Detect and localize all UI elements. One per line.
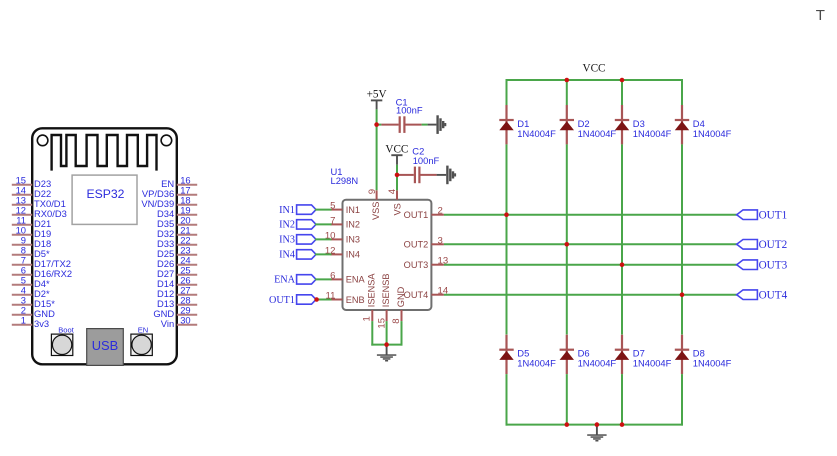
- svg-text:ISENSB: ISENSB: [381, 273, 391, 307]
- node IN2 net flag (left): [279, 220, 316, 231]
- U1 pin 15 (ISENSB) lead+number+name: [377, 273, 391, 328]
- svg-text:ISENSA: ISENSA: [367, 273, 377, 308]
- svg-text:1N4004F: 1N4004F: [517, 128, 556, 139]
- ground symbol bottom rail: [587, 425, 606, 442]
- wire OUT4 to D8: [681, 295, 683, 335]
- svg-text:IN4: IN4: [279, 250, 295, 261]
- ESP32 pin 16 (EN) right stub+number+name: [161, 174, 197, 188]
- junction D4/D8 on OUT4: [680, 292, 685, 297]
- svg-text:Boot: Boot: [58, 325, 75, 334]
- svg-text:IN1: IN1: [346, 205, 360, 215]
- svg-text:1: 1: [21, 314, 26, 325]
- svg-text:ENB: ENB: [346, 295, 365, 305]
- svg-text:1N4004F: 1N4004F: [633, 128, 672, 139]
- wire D8 to ground rail: [681, 374, 683, 426]
- wire IN2 flag to U1: [315, 223, 332, 225]
- wire D1 to OUT1: [506, 144, 508, 214]
- wire ISENSB pin15 down: [386, 321, 388, 346]
- node ENA net flag (left): [274, 275, 316, 286]
- svg-text:OUT1: OUT1: [404, 210, 429, 220]
- svg-text:1N4004F: 1N4004F: [578, 358, 617, 369]
- ESP32 pin 1 (3v3) left stub+number+name: [12, 314, 49, 328]
- svg-text:VCC: VCC: [385, 143, 408, 155]
- wire +5V to VSS pin9: [376, 109, 378, 190]
- svg-text:IN3: IN3: [279, 235, 295, 246]
- ESP32 pin 11 (D21) left stub+number+name: [12, 214, 51, 228]
- wire OUT1 flag to U1: [315, 299, 332, 301]
- ESP32 pin 9 (D18) left stub+number+name: [12, 234, 51, 248]
- svg-text:IN2: IN2: [346, 220, 360, 230]
- svg-text:1N4004F: 1N4004F: [633, 358, 672, 369]
- wire GND pin8 down: [401, 321, 403, 346]
- wire IN1 flag to U1: [315, 209, 332, 211]
- ESP32 pin 10 (D19) left stub+number+name: [12, 224, 51, 238]
- ESP32 pin 22 (D33) right stub+number+name: [157, 234, 197, 248]
- wire OUT4 from U1 to flag: [444, 294, 738, 296]
- diode D3 1N4004F: [615, 105, 672, 144]
- svg-text:8: 8: [391, 318, 402, 323]
- wire VCC rail to D4: [681, 79, 683, 105]
- ground symbol under U1: [377, 345, 396, 362]
- wire OUT2 from U1 to flag: [444, 243, 738, 245]
- ESP32 pin 6 (D16/RX2) left stub+number+name: [12, 264, 72, 278]
- svg-text:IN3: IN3: [346, 235, 360, 245]
- ESP32 pin 3 (D15*) left stub+number+name: [12, 294, 55, 308]
- svg-text:T: T: [816, 7, 825, 24]
- svg-text:3v3: 3v3: [34, 318, 49, 329]
- U1 pin 10 (IN3) lead+number+name: [325, 230, 360, 244]
- ESP32 antenna meander: [52, 135, 157, 171]
- ESP32 USB connector: [87, 329, 124, 366]
- diode D7 1N4004F: [615, 335, 672, 374]
- wire VCC rail to D1: [506, 79, 508, 105]
- ESP32 pin 15 (D23) left stub+number+name: [12, 174, 51, 188]
- wire VCC top rail: [506, 79, 684, 81]
- wire D3 to OUT3: [621, 144, 623, 264]
- ESP32 pin 29 (GND) right stub+number+name: [153, 304, 197, 318]
- ESP32 pin 25 (D27) right stub+number+name: [157, 264, 197, 278]
- svg-text:ENA: ENA: [274, 275, 296, 286]
- ESP32 mounting hole left: [37, 135, 48, 146]
- svg-text:OUT4: OUT4: [404, 290, 429, 300]
- wire OUT2 to D6: [566, 244, 568, 334]
- wire IN3 flag to U1: [315, 238, 332, 240]
- ESP32 pin 14 (D22) left stub+number+name: [12, 184, 51, 198]
- svg-text:VCC: VCC: [582, 62, 605, 74]
- U1 pin 3 (OUT2) lead+number+name: [404, 235, 444, 249]
- power VCC symbol (at C2): [385, 143, 408, 164]
- node OUT1 net flag (left): [269, 295, 316, 306]
- ESP32 chip box: [72, 175, 137, 224]
- svg-text:GND: GND: [396, 286, 406, 307]
- node OUT2 net flag (right): [737, 239, 787, 251]
- diode D8 1N4004F: [675, 335, 732, 374]
- node IN1 net flag (left): [279, 205, 316, 216]
- node OUT1 net flag (right): [737, 209, 787, 221]
- ESP32 pin 26 (D14) right stub+number+name: [157, 274, 197, 288]
- ESP32 pin 21 (D32) right stub+number+name: [157, 224, 197, 238]
- junction D1/D5 on OUT1: [504, 212, 509, 217]
- svg-text:OUT4: OUT4: [759, 289, 788, 301]
- U1 pin 8 (GND) lead+number+name: [391, 286, 406, 323]
- wire D4 to OUT4: [681, 144, 683, 294]
- svg-text:30: 30: [180, 314, 190, 325]
- ESP32 pin 12 (RX0/D3) left stub+number+name: [12, 204, 67, 218]
- wire VCC rail to D2: [566, 79, 568, 105]
- ESP32 pin 7 (D17/TX2) left stub+number+name: [12, 254, 71, 268]
- ESP32 pin 20 (D35) right stub+number+name: [157, 214, 197, 228]
- U1 pin 6 (ENA) lead+number+name: [330, 270, 365, 284]
- svg-text:ENA: ENA: [346, 275, 366, 285]
- ESP32 pin 17 (VP/D36) right stub+number+name: [142, 184, 197, 198]
- svg-text:VS: VS: [392, 203, 402, 215]
- svg-text:IN2: IN2: [279, 220, 295, 231]
- U1 pin 11 (ENB) lead+number+name: [326, 291, 365, 305]
- svg-text:OUT3: OUT3: [759, 259, 788, 271]
- svg-text:L298N: L298N: [331, 175, 359, 186]
- wire OUT3 to D7: [621, 265, 623, 335]
- svg-text:Vin: Vin: [161, 318, 174, 329]
- diode D6 1N4004F: [560, 335, 617, 374]
- svg-text:1N4004F: 1N4004F: [693, 128, 732, 139]
- wire D7 to ground rail: [621, 374, 623, 426]
- svg-text:100nF: 100nF: [413, 155, 440, 166]
- wire bottom ground rail: [506, 424, 684, 426]
- wire ENA flag to U1: [315, 278, 332, 280]
- svg-text:OUT3: OUT3: [404, 260, 429, 270]
- U1 pin 1 (ISENSA) lead+number+name: [361, 273, 376, 322]
- svg-text:1N4004F: 1N4004F: [517, 358, 556, 369]
- svg-text:VSS: VSS: [371, 202, 381, 220]
- svg-text:1N4004F: 1N4004F: [578, 128, 617, 139]
- wire VCC to VS pin4: [396, 165, 398, 191]
- wire OUT1 to D5: [506, 215, 508, 335]
- svg-text:OUT2: OUT2: [759, 239, 788, 251]
- svg-text:OUT1: OUT1: [269, 295, 295, 306]
- diode D1 1N4004F: [499, 105, 556, 144]
- ESP32 pin 24 (D26) right stub+number+name: [157, 254, 197, 268]
- junction ground bottom rail: [595, 422, 600, 427]
- junction +5V / C1: [374, 122, 379, 127]
- U1 pin 9 (VSS) lead+number+name: [367, 189, 381, 220]
- ESP32 Boot button: [51, 325, 74, 355]
- node IN4 net flag (left): [279, 250, 316, 261]
- ESP32 EN button: [131, 325, 152, 355]
- wire ISENSA pin1 down: [371, 321, 373, 346]
- node IN3 net flag (left): [279, 235, 316, 246]
- wire VCC rail to D3: [621, 79, 623, 105]
- U1 pin 14 (OUT4) lead+number+name: [404, 286, 449, 300]
- svg-text:3: 3: [438, 235, 443, 246]
- svg-text:IN4: IN4: [346, 250, 360, 260]
- wire OUT1 from U1 to flag: [444, 214, 738, 216]
- wire IN4 flag to U1: [315, 253, 332, 255]
- junction D6 bottom rail: [565, 422, 570, 427]
- svg-text:1: 1: [361, 316, 372, 321]
- svg-text:IN1: IN1: [279, 205, 295, 216]
- svg-text:OUT2: OUT2: [404, 240, 429, 250]
- ESP32 pin 19 (D34) right stub+number+name: [157, 204, 197, 218]
- ESP32 mounting hole right: [161, 135, 172, 146]
- ESP32 pin 8 (D5*) left stub+number+name: [12, 244, 50, 258]
- ESP32 pin 5 (D4*) left stub+number+name: [12, 274, 50, 288]
- ESP32 pin 2 (GND) left stub+number+name: [12, 304, 55, 318]
- svg-text:1N4004F: 1N4004F: [693, 358, 732, 369]
- svg-text:100nF: 100nF: [396, 105, 423, 116]
- ESP32 pin 23 (D25) right stub+number+name: [157, 244, 197, 258]
- U1 pin 12 (IN4) lead+number+name: [325, 245, 360, 259]
- op-amp U1 L298N body: [343, 200, 432, 310]
- svg-text:USB: USB: [92, 338, 119, 353]
- node OUT3 net flag (right): [737, 259, 788, 271]
- wire OUT3 from U1 to flag: [444, 264, 738, 266]
- ESP32 pin 18 (VN/D39) right stub+number+name: [141, 194, 197, 208]
- svg-text:EN: EN: [138, 325, 149, 334]
- ESP32 module outline: [32, 128, 177, 364]
- U1 pin 5 (IN1) lead+number+name: [330, 201, 360, 215]
- diode D5 1N4004F: [499, 335, 556, 374]
- ESP32 pin 28 (D13) right stub+number+name: [157, 294, 197, 308]
- wire D2 to OUT2: [566, 144, 568, 244]
- junction D3 top rail: [620, 78, 625, 83]
- U1 pin 4 (VS) lead+number+name: [387, 188, 402, 215]
- ESP32 pin 4 (D2*) left stub+number+name: [12, 284, 50, 298]
- wire D6 to ground rail: [566, 374, 568, 426]
- junction D2/D6 on OUT2: [565, 242, 570, 247]
- ESP32 pin 30 (Vin) right stub+number+name: [161, 314, 197, 328]
- junction D3/D7 on OUT3: [620, 262, 625, 267]
- capacitor C2 100nF with ground: [397, 166, 456, 185]
- svg-text:OUT1: OUT1: [759, 209, 788, 221]
- junction D7 bottom rail: [620, 422, 625, 427]
- capacitor C1 100nF with ground: [377, 115, 447, 134]
- svg-text:+5V: +5V: [367, 89, 387, 101]
- junction D2 top rail: [565, 78, 570, 83]
- ESP32 pin 27 (D12) right stub+number+name: [157, 284, 197, 298]
- svg-text:2: 2: [438, 206, 443, 217]
- U1 pin 13 (OUT3) lead+number+name: [404, 256, 448, 270]
- diode D2 1N4004F: [560, 105, 617, 144]
- wire D5 to ground rail: [506, 374, 508, 426]
- diode D4 1N4004F: [675, 105, 732, 144]
- U1 pin 7 (IN2) lead+number+name: [330, 215, 360, 229]
- ESP32 pin 13 (TX0/D1) left stub+number+name: [12, 194, 66, 208]
- U1 pin 2 (OUT1) lead+number+name: [404, 206, 444, 220]
- junction U1 ground rail: [384, 342, 389, 347]
- junction VCC / C2: [395, 173, 400, 178]
- node OUT4 net flag (right): [737, 289, 788, 301]
- wire bottom rail under U1: [371, 344, 402, 346]
- power +5V symbol: [367, 89, 387, 110]
- svg-text:ESP32: ESP32: [87, 187, 125, 201]
- junction at OUT1 flag / ENB: [314, 297, 319, 302]
